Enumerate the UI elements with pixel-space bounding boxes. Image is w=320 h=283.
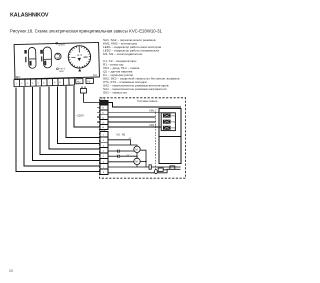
svg-text:20: 20	[9, 269, 13, 273]
svg-text:M1, M2 – электродвигатели: M1, M2 – электродвигатели	[103, 52, 143, 56]
svg-text:KM1.1: KM1.1	[149, 109, 157, 112]
svg-text:Рисунок 18. Схема электрическа: Рисунок 18. Схема электрическая принципи…	[10, 28, 163, 33]
svg-text:speed: speed	[58, 44, 65, 46]
svg-text:SA1: SA1	[93, 74, 98, 77]
svg-text:heat: heat	[59, 70, 64, 73]
svg-text:~220V: ~220V	[76, 114, 85, 118]
svg-text:SK1 – термостат: SK1 – термостат	[103, 91, 128, 95]
svg-text:NO: NO	[77, 81, 81, 84]
svg-text:KM1.2: KM1.2	[149, 124, 157, 127]
svg-text:XT2: XT2	[14, 76, 19, 79]
svg-text:Тепловая завеса: Тепловая завеса	[137, 99, 158, 103]
svg-text:PE: PE	[87, 80, 91, 83]
svg-text:M1 · M2: M1 · M2	[117, 134, 126, 137]
svg-text:M: M	[135, 147, 137, 151]
svg-text:M: M	[135, 160, 137, 164]
svg-text:KALASHNIKOV: KALASHNIKOV	[10, 13, 49, 19]
svg-text:18·25: 18·25	[76, 55, 82, 57]
